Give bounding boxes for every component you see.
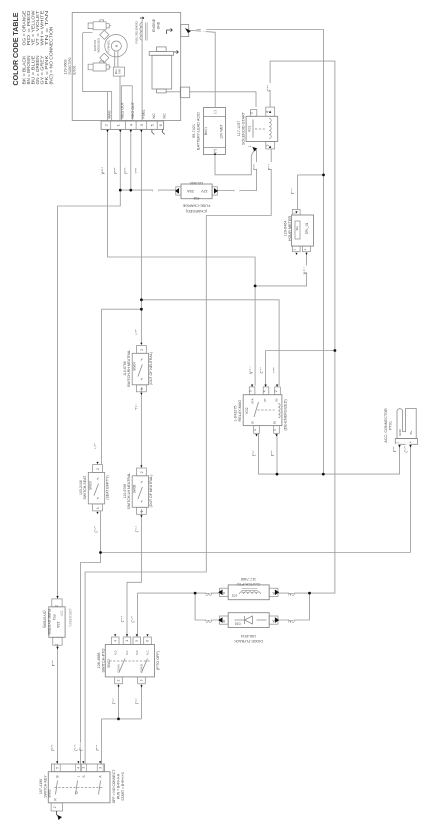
svg-text:115-5610: 115-5610: [190, 181, 203, 185]
svg-text:S: S: [82, 775, 86, 777]
svg-text:B: B: [56, 775, 60, 777]
svg-text:L01: L01: [232, 594, 238, 598]
svg-text:1: 1: [55, 643, 59, 645]
svg-text:15A: 15A: [56, 622, 60, 629]
svg-text:1: 1: [125, 640, 129, 642]
svg-text:2: 2: [96, 468, 100, 470]
svg-text:99-7421: 99-7421: [192, 124, 196, 138]
svg-text:SW01: SW01: [48, 789, 52, 798]
svg-text:SWITCH-SEAT: SWITCH-SEAT: [83, 475, 87, 500]
svg-text:2: 2: [140, 349, 144, 351]
svg-text:(-): (-): [213, 110, 217, 114]
svg-text:N.C.: N.C.: [125, 650, 129, 655]
svg-text:1: 1: [253, 429, 257, 431]
svg-text:FUSE-CHARGE: FUSE-CHARGE: [182, 204, 210, 208]
svg-text:106-4588: 106-4588: [97, 652, 101, 668]
svg-text:OFF = NO CONNECT: OFF = NO CONNECT: [112, 770, 116, 803]
svg-text:30a: 30a: [295, 226, 299, 231]
svg-text:N.O.: N.O.: [113, 650, 117, 656]
svg-text:4: 4: [113, 640, 117, 642]
svg-text:K02: K02: [245, 407, 249, 413]
svg-text:5: 5: [135, 640, 139, 642]
svg-text:FUEL: FUEL: [142, 109, 146, 118]
svg-text:MAG: MAG: [108, 110, 112, 118]
svg-text:DIODE-FLYBACK: DIODE-FLYBACK: [234, 639, 263, 643]
svg-text:(NC) = NO CONNECTION: (NC) = NO CONNECTION: [48, 27, 53, 85]
svg-text:FLYWHEEL: FLYWHEEL: [107, 39, 110, 52]
svg-text:CLUTCH-PTO: CLUTCH-PTO: [237, 582, 260, 586]
svg-text:1: 1: [82, 767, 86, 769]
svg-text:TAB: TAB: [118, 69, 122, 74]
svg-text:32V: 32V: [60, 611, 64, 618]
svg-text:FUEL SOLENOID: FUEL SOLENOID: [135, 21, 139, 43]
svg-text:2: 2: [117, 679, 121, 681]
svg-text:E/S01: E/S01: [73, 66, 77, 75]
svg-text:2: 2: [274, 390, 278, 392]
svg-text:85: 85: [273, 421, 277, 425]
svg-text:GND: GND: [156, 21, 160, 29]
svg-text:K01: K01: [247, 125, 251, 131]
svg-text:HOUR METER: HOUR METER: [288, 215, 292, 241]
svg-text:(DE-ENERGIZED): (DE-ENERGIZED): [283, 399, 287, 431]
svg-text:SWITCH-LH NEUTRAL: SWITCH-LH NEUTRAL: [127, 473, 131, 510]
svg-text:REG OUT: REG OUT: [131, 101, 135, 118]
svg-text:SWITCH-PTO: SWITCH-PTO: [102, 648, 106, 672]
svg-text:I: I: [77, 776, 81, 777]
svg-text:START = B+R+I+S: START = B+R+I+S: [121, 772, 125, 801]
svg-text:2: 2: [249, 112, 253, 114]
svg-text:3: 3: [249, 390, 253, 392]
svg-text:1: 1: [140, 510, 144, 512]
svg-text:2: 2: [53, 806, 57, 808]
svg-text:30: 30: [251, 421, 255, 425]
svg-text:(OUT OF NEUTRAL): (OUT OF NEUTRAL): [149, 475, 153, 508]
svg-text:RUN = B+R+I+A: RUN = B+R+I+A: [117, 773, 121, 799]
svg-text:DPL_01: DPL_01: [305, 223, 309, 235]
svg-text:3: 3: [140, 679, 144, 681]
svg-text:87: 87: [263, 398, 267, 402]
svg-text:F02: F02: [193, 196, 199, 200]
svg-text:108-4914: 108-4914: [241, 634, 256, 638]
svg-text:87A: 87A: [251, 398, 255, 403]
svg-text:86: 86: [275, 398, 279, 402]
svg-text:BATTERY-LEAD ACID: BATTERY-LEAD ACID: [197, 112, 201, 150]
svg-text:MODULE(S): MODULE(S): [96, 38, 100, 53]
svg-text:117-1197: 117-1197: [237, 121, 241, 136]
svg-text:B: B: [223, 619, 225, 623]
svg-text:SW02: SW02: [107, 659, 111, 668]
svg-text:(OUT OF NEUTRAL): (OUT OF NEUTRAL): [149, 352, 153, 385]
svg-text:KILL: KILL: [114, 68, 118, 74]
svg-text:SOLENOID-START: SOLENOID-START: [242, 111, 246, 145]
svg-text:SW03: SW03: [89, 481, 93, 490]
svg-text:5: 5: [56, 767, 60, 769]
svg-text:12V WET: 12V WET: [220, 124, 224, 139]
svg-text:2: 2: [55, 605, 59, 607]
svg-text:(SEAT EMPTY): (SEAT EMPTY): [105, 476, 109, 500]
svg-text:ENGINE-TORO: ENGINE-TORO: [68, 57, 72, 74]
svg-text:1-643275: 1-643275: [234, 405, 238, 421]
svg-text:3: 3: [99, 767, 103, 769]
svg-text:ACC. CONNECTOR: ACC. CONNECTOR: [384, 408, 388, 443]
svg-text:SW04: SW04: [133, 362, 137, 371]
svg-text:B+: B+: [409, 430, 413, 434]
svg-text:1: 1: [96, 507, 100, 509]
svg-text:3: 3: [266, 144, 270, 146]
svg-text:D01: D01: [234, 622, 240, 626]
svg-text:N.C.: N.C.: [146, 650, 150, 655]
svg-text:F01: F01: [52, 615, 56, 621]
svg-text:4: 4: [266, 111, 270, 113]
svg-text:N.O.: N.O.: [135, 650, 139, 656]
svg-text:2: 2: [140, 471, 144, 473]
svg-text:GND: GND: [398, 428, 402, 436]
svg-text:(SYSTEM): (SYSTEM): [43, 611, 47, 628]
svg-text:(ORDERED): (ORDERED): [68, 609, 72, 627]
svg-text:SWITCH-RH NEUTRAL: SWITCH-RH NEUTRAL: [127, 350, 131, 387]
svg-text:(PTO OFF): (PTO OFF): [156, 650, 160, 670]
svg-text:4: 4: [263, 390, 267, 392]
svg-text:6: 6: [146, 640, 150, 642]
svg-text:1: 1: [140, 388, 144, 390]
svg-text:B: B: [273, 591, 275, 595]
svg-text:B#01: B#01: [204, 127, 208, 135]
svg-text:(CHARGED): (CHARGED): [185, 209, 207, 213]
svg-text:120-6464: 120-6464: [283, 220, 287, 236]
svg-text:NC: NC: [163, 113, 167, 119]
svg-text:25A: 25A: [187, 189, 194, 193]
svg-text:NC: NC: [152, 113, 156, 119]
svg-text:SWITCH-KEY: SWITCH-KEY: [43, 775, 47, 798]
svg-text:SW08: SW08: [133, 484, 137, 493]
svg-text:RELAY-MAG: RELAY-MAG: [238, 400, 242, 422]
svg-text:117-7468: 117-7468: [241, 577, 256, 581]
svg-text:1: 1: [248, 145, 252, 147]
svg-text:107-4190: 107-4190: [39, 779, 43, 794]
svg-text:COLOR CODE TABLE: COLOR CODE TABLE: [11, 13, 20, 86]
svg-text:5: 5: [273, 429, 277, 431]
svg-text:129-0603: 129-0603: [64, 60, 68, 75]
svg-text:PT01: PT01: [389, 421, 393, 430]
svg-text:REG OUT: REG OUT: [121, 101, 125, 118]
svg-text:12V: 12V: [201, 189, 208, 193]
